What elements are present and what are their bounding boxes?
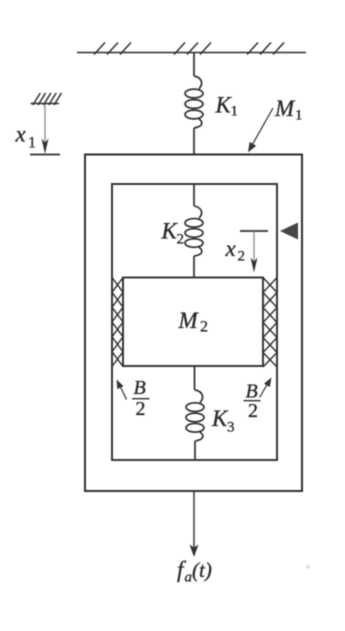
svg-text:2: 2 <box>136 398 146 420</box>
x1 arrow <box>44 104 46 144</box>
svg-text:M: M <box>274 96 296 121</box>
svg-text:a: a <box>185 570 193 586</box>
svg-text:2: 2 <box>200 319 208 336</box>
wire K3 to frame <box>194 441 196 460</box>
scan speck <box>306 565 310 569</box>
spring K1 <box>185 76 203 128</box>
svg-text:2: 2 <box>248 400 258 422</box>
svg-text:x: x <box>225 236 237 261</box>
spring K3 <box>186 390 204 441</box>
inner frame <box>112 184 277 460</box>
wire M2 to K3 <box>194 366 196 390</box>
svg-text:1: 1 <box>231 104 239 120</box>
wire K2 to M2 <box>193 256 195 278</box>
svg-text:B: B <box>134 377 146 399</box>
svg-text:M: M <box>178 308 200 333</box>
damper wall marker (filled triangle) <box>280 223 298 240</box>
left friction hatch B/2 <box>112 278 123 367</box>
svg-text:x: x <box>15 122 27 147</box>
svg-text:3: 3 <box>227 420 235 436</box>
wire ceiling to K1 <box>193 53 195 77</box>
svg-text:2: 2 <box>238 249 246 265</box>
svg-text:2: 2 <box>177 232 185 248</box>
mass M1 box <box>85 155 302 492</box>
right friction hatch B/2 <box>263 278 277 368</box>
x1 bottom reference line <box>30 154 60 156</box>
x2 reference line <box>240 230 268 232</box>
svg-text:1: 1 <box>295 108 303 124</box>
M1 pointer arrow <box>251 108 273 147</box>
svg-text:1: 1 <box>28 135 36 152</box>
ceiling hatch group 1 <box>94 43 131 55</box>
wire K1 to M1 <box>193 128 195 155</box>
wire frame to K2 <box>193 184 195 206</box>
B/2 left pointer arrow <box>119 384 127 400</box>
mass M2 box <box>123 278 263 367</box>
ceiling line <box>77 52 306 54</box>
ceiling hatch group 3 <box>247 43 284 55</box>
ceiling hatch group 2 <box>174 43 211 55</box>
svg-text:(t): (t) <box>192 558 212 582</box>
spring K2 <box>185 206 203 256</box>
force arrow f_a(t) <box>193 491 195 548</box>
x2 arrow <box>253 231 255 263</box>
B/2 right pointer arrow <box>260 384 268 398</box>
x1 reference hatch <box>31 93 62 105</box>
